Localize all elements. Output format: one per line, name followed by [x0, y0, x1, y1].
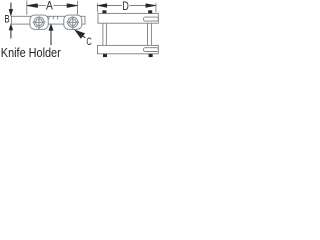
top rail slot: [143, 17, 158, 21]
top rail (right view): [98, 13, 158, 23]
hole 2 crosshair: [66, 21, 79, 23]
svg-text:A: A: [46, 0, 54, 13]
dim A arrow left: [27, 4, 38, 8]
stud bottom-left: [103, 54, 107, 57]
stud bottom-right: [149, 54, 153, 57]
background: [0, 0, 160, 62]
dim B up arrow: [9, 24, 13, 30]
bar (left view body): [11, 16, 85, 24]
tick 2: [52, 16, 54, 19]
dim B down arrow: [10, 3, 12, 10]
tick 1: [48, 16, 50, 19]
hole 1 crosshair: [33, 21, 46, 23]
boss 2: [64, 15, 82, 29]
leg 2b: [150, 23, 152, 45]
svg-text:Knife Holder: Knife Holder: [1, 46, 61, 60]
leg 1b: [105, 23, 107, 45]
svg-text:D: D: [122, 0, 129, 13]
dim A line: [27, 5, 46, 7]
bottom rail slot: [143, 48, 158, 52]
stud top-right: [148, 10, 152, 13]
dim D extension left: [96, 3, 98, 12]
svg-text:C: C: [86, 35, 92, 48]
boss 1: [30, 15, 48, 29]
bottom rail: [98, 45, 159, 53]
hole 1 outer: [34, 17, 44, 27]
svg-text:B: B: [4, 13, 9, 26]
dim A extension right: [77, 1, 79, 15]
leader arrow from title: [50, 30, 52, 45]
dim D arrow left: [97, 4, 106, 8]
hole 2 outer: [68, 17, 78, 27]
dim D arrow right: [146, 4, 156, 8]
leg 2a: [147, 23, 149, 45]
dim A extension left: [26, 1, 28, 15]
tick 3: [57, 16, 59, 19]
hole 1 inner: [36, 19, 43, 26]
hole 2 inner: [70, 19, 77, 26]
dim D extension right: [155, 3, 157, 12]
leg 1a: [102, 23, 104, 45]
leader arrow C: [75, 30, 85, 38]
stud top-left: [102, 10, 106, 13]
dim A arrow right: [67, 4, 78, 8]
dim D line: [98, 5, 122, 7]
